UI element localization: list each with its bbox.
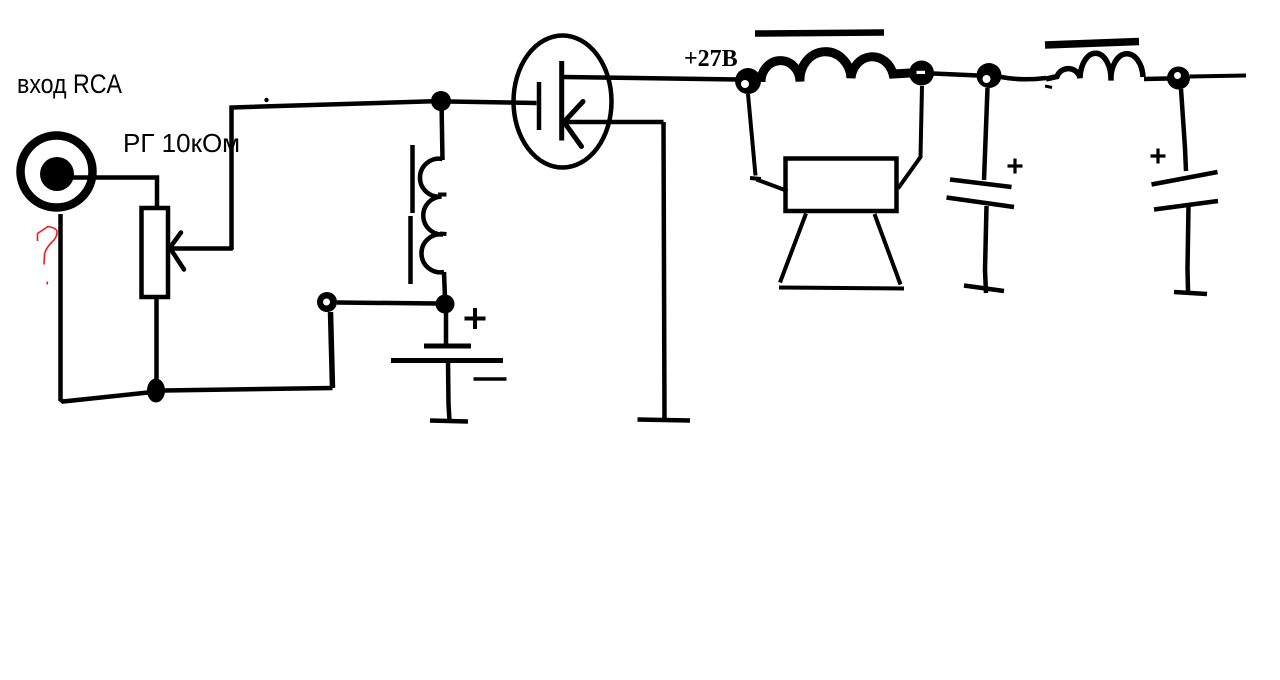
wire source to right <box>564 120 664 125</box>
battery "+" label <box>465 308 486 329</box>
junction node B (battery + node) <box>436 295 455 314</box>
capacitor C2 bottom plate <box>1154 201 1218 210</box>
RCA connector J1 outer ring <box>21 136 93 208</box>
wire C2 bottom lead <box>1188 206 1189 292</box>
stray tick below wire <box>1045 86 1052 88</box>
capacitor C2 top plate <box>1152 172 1218 185</box>
wire bottom rail left + RCA ground drop <box>61 214 149 402</box>
wire L2 to C1 node <box>933 74 978 76</box>
battery bottom lead <box>448 361 450 422</box>
stray dot above gate wire <box>264 98 268 102</box>
speaker cone left edge <box>780 214 806 283</box>
junction node A (gate node) <box>431 91 451 111</box>
wire donut down to bottom rail <box>331 312 333 388</box>
junction node (donut) C1 top <box>977 63 1002 88</box>
wire potentiometer bottom lead <box>154 297 159 382</box>
ground C1 <box>964 286 1004 292</box>
junction node C (bottom rail) <box>147 379 165 403</box>
wire RCA pin to potentiometer top <box>70 178 157 211</box>
speaker cone bottom <box>779 288 904 289</box>
wire C1 top lead <box>984 88 988 180</box>
inductor L3 winding <box>1046 53 1143 80</box>
ground C2 <box>1174 292 1207 294</box>
Q1 channel bar <box>559 61 564 141</box>
transformer T1 core bar <box>755 33 884 34</box>
potentiometer РГ body <box>142 208 169 297</box>
speaker LS1 frame <box>786 159 897 212</box>
wire drain to +27B rail <box>563 77 738 80</box>
inductor L1 core bar <box>411 145 413 284</box>
battery "−" label <box>474 377 507 381</box>
wire gate node to transistor gate <box>449 102 537 104</box>
ground (source) <box>638 420 691 421</box>
inductor L1 winding <box>420 159 444 273</box>
battery B1 top lead <box>444 310 449 346</box>
wire C1 node to L3 <box>1001 77 1046 79</box>
battery B1 short plate <box>424 344 471 349</box>
wire donut down to C2 <box>1181 89 1186 171</box>
speaker cone right edge <box>875 214 901 285</box>
junction node L2 right <box>909 61 934 86</box>
svg-text:+27В: +27В <box>684 46 738 72</box>
svg-text:РГ 10кОм: РГ 10кОм <box>123 128 240 158</box>
"+" label C2 <box>1151 149 1166 164</box>
potentiometer wiper arrow <box>169 233 232 270</box>
inductor L2 winding (primary) <box>761 52 910 82</box>
capacitor C1 top plate <box>950 180 1012 188</box>
"+" label C1 <box>1008 159 1023 174</box>
capacitor C1 bottom plate <box>947 198 1015 208</box>
junction node (donut) left of battery <box>317 292 337 312</box>
inductor L3 core bar <box>1045 42 1139 46</box>
ground (battery) <box>430 421 468 422</box>
junction node (donut) C2 top <box>1167 67 1190 90</box>
wire output to right <box>1190 76 1246 77</box>
L1 winding junction nubs <box>438 195 447 235</box>
wire speaker right lead <box>898 86 922 189</box>
wire L1 bottom to battery node <box>444 272 445 298</box>
wire bottom rail right segment <box>164 388 333 391</box>
red question mark <box>38 227 58 265</box>
junction node (donut) +27B <box>735 68 761 94</box>
wire battery node left to donut node <box>337 303 438 304</box>
RCA connector center pin <box>40 157 74 191</box>
svg-text:вход RCA: вход RCA <box>17 69 122 99</box>
transistor Q1 body <box>514 36 612 168</box>
wire C1 bottom lead <box>985 206 987 293</box>
Q1 source arrow <box>564 102 583 147</box>
wire wiper up to gate line <box>232 101 442 249</box>
wire L3 to donut <box>1144 76 1168 81</box>
battery B1 long plate <box>391 358 503 363</box>
wire source down to ground <box>664 122 665 421</box>
wire gate node down to L1 <box>442 101 443 160</box>
wire speaker left lead <box>748 94 788 191</box>
Q1 gate bar <box>537 82 542 130</box>
